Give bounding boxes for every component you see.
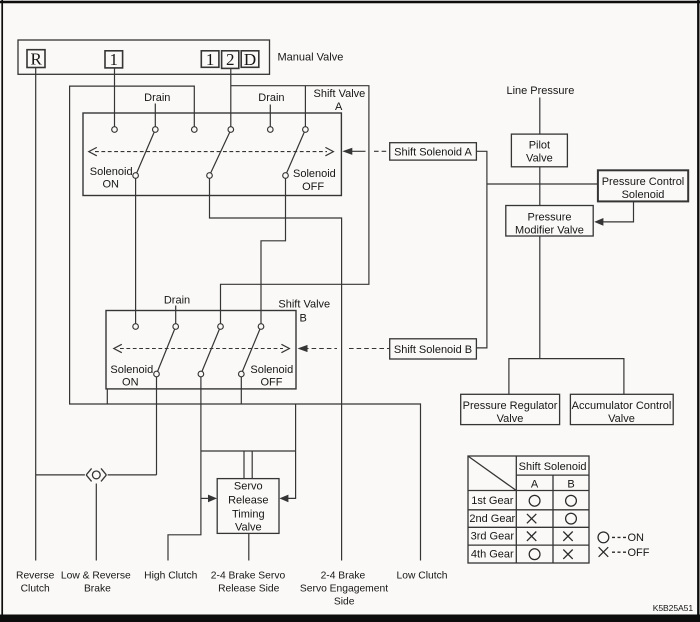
node shift valve B top ports [133, 324, 139, 330]
svg-text:Solenoid: Solenoid [293, 168, 336, 180]
svg-text:1st Gear: 1st Gear [471, 495, 514, 507]
legend on symbol [598, 532, 609, 543]
wire check valve to low and reverse brake [95, 484, 97, 561]
dashed arrow shift solenoid B to shift valve B [304, 348, 390, 350]
svg-text:Shift Valve: Shift Valve [278, 299, 330, 311]
mark 1st gear A on [529, 495, 540, 506]
svg-text:Solenoid: Solenoid [622, 189, 665, 201]
wire pressure modifier valve down [539, 236, 541, 359]
svg-text:Valve: Valve [497, 413, 524, 425]
svg-text:Accumulator Control: Accumulator Control [572, 400, 672, 412]
svg-text:Servo Engagement: Servo Engagement [300, 583, 388, 594]
wire drain run drop to servo release timing valve right side [285, 404, 296, 498]
wire drain net: left riser, shift valve A port 3, low clutch run [70, 86, 421, 560]
svg-text:Manual Valve: Manual Valve [278, 52, 344, 64]
svg-text:Solenoid: Solenoid [110, 364, 153, 376]
manual valve box [18, 40, 270, 74]
mark 2nd gear B on [566, 513, 577, 524]
mark 2nd gear A off [527, 514, 536, 523]
svg-text:Valve: Valve [608, 413, 635, 425]
svg-text:Valve: Valve [526, 152, 553, 164]
mark 3rd gear B off [563, 532, 572, 541]
switch diagonal B2 [201, 327, 221, 375]
wire split to regulator and accumulator valves [509, 359, 624, 395]
mark 4th gear B off [563, 550, 572, 559]
svg-text:2-4 Brake Servo: 2-4 Brake Servo [211, 570, 286, 581]
svg-text:Line Pressure: Line Pressure [506, 85, 574, 97]
svg-text:Solenoid: Solenoid [90, 166, 133, 178]
accumulator control valve box [570, 394, 673, 424]
svg-text:Release: Release [228, 494, 268, 506]
svg-text:Valve: Valve [235, 521, 262, 533]
wire shift valve A port c down to shift valve B port 4 [261, 176, 286, 327]
mark 1st gear B on [566, 495, 577, 506]
svg-text:B: B [300, 313, 307, 325]
pilot valve box [511, 134, 567, 167]
svg-text:Pilot: Pilot [529, 139, 550, 151]
arrow into servo release timing valve right side [279, 495, 288, 503]
svg-text:Side: Side [334, 596, 355, 607]
svg-text:2: 2 [226, 50, 235, 69]
wire pilot valve branch to solenoids and pressure control solenoid [487, 183, 598, 185]
port box 1 [105, 51, 123, 68]
svg-text:2nd Gear: 2nd Gear [469, 513, 515, 525]
pressure modifier valve box [506, 206, 593, 237]
arrow into pressure modifier valve [594, 218, 603, 226]
svg-text:Reverse: Reverse [16, 570, 55, 581]
svg-text:Timing: Timing [232, 508, 265, 520]
switch diagonal A2 [210, 130, 232, 176]
svg-text:High Clutch: High Clutch [144, 570, 197, 581]
svg-text:OFF: OFF [261, 377, 283, 389]
svg-text:3rd Gear: 3rd Gear [471, 531, 515, 543]
svg-text:OFF: OFF [628, 547, 650, 559]
svg-text:Drain: Drain [164, 295, 190, 307]
svg-text:Clutch: Clutch [21, 583, 50, 594]
mark 4th gear A on [529, 549, 540, 560]
shift valve B box [106, 311, 296, 389]
svg-text:OFF: OFF [302, 181, 324, 193]
svg-text:ON: ON [122, 377, 139, 389]
wire branch into servo release timing valve left side [201, 497, 212, 499]
svg-text:Modifier Valve: Modifier Valve [515, 225, 584, 237]
svg-text:Servo: Servo [234, 480, 263, 492]
wire shift valve B port f down to high clutch [168, 374, 201, 561]
node shift valve A bottom ports [133, 173, 139, 179]
wire shift valve A port a down to shift valve B port 1 [135, 176, 137, 327]
port box D [241, 51, 259, 68]
switch diagonal A3 [286, 130, 306, 176]
svg-text:Drain: Drain [258, 92, 284, 104]
svg-text:1: 1 [110, 50, 119, 69]
dashed spool arrow shift valve A [95, 151, 327, 153]
svg-text:Brake: Brake [84, 583, 111, 594]
svg-text:Shift Solenoid A: Shift Solenoid A [394, 147, 472, 159]
wire stub shift valve A port 6 [304, 86, 306, 130]
switch diagonal B3 [241, 327, 261, 375]
svg-text:Pressure Control: Pressure Control [602, 176, 685, 188]
switch diagonal B1 [157, 327, 176, 375]
shift valve A box [83, 113, 341, 196]
wire branch to servo release timing valve top [201, 450, 296, 452]
svg-text:Shift Valve: Shift Valve [314, 88, 366, 100]
svg-text:R: R [31, 49, 43, 68]
wire 1 port down to shift valve A port 1 [114, 68, 116, 130]
wire drain label stub A2 [269, 105, 271, 130]
shift solenoid A box [390, 143, 477, 160]
legend off symbol [599, 547, 609, 557]
port box 2 (D range) [222, 51, 239, 69]
shift solenoid B box [390, 339, 477, 359]
svg-text:Low Clutch: Low Clutch [397, 570, 448, 581]
dashed arrow shift solenoid A to shift valve A [347, 150, 366, 152]
svg-text:Pressure Regulator: Pressure Regulator [463, 400, 558, 412]
svg-text:Low & Reverse: Low & Reverse [61, 570, 131, 581]
wire pilot valve down to pressure modifier valve [539, 167, 541, 206]
svg-text:Drain: Drain [144, 92, 170, 104]
svg-text:Pressure: Pressure [527, 212, 571, 224]
check valve symbol [86, 468, 106, 481]
port box 1 (D range) [201, 51, 219, 68]
mark 3rd gear A off [527, 532, 536, 541]
node shift valve A top ports [112, 127, 118, 133]
wire shift valve B port g down to drain run [240, 374, 242, 404]
svg-text:Shift Solenoid B: Shift Solenoid B [394, 344, 472, 356]
pressure control solenoid box [598, 170, 688, 201]
gear table marks [527, 495, 626, 559]
port box R [27, 50, 45, 68]
node shift valve B bottom ports [154, 371, 160, 377]
wire 2 port down to shift valve A port 4 [230, 68, 232, 129]
wire pressure control solenoid to pressure modifier valve [601, 201, 634, 222]
svg-text:1: 1 [206, 50, 215, 69]
svg-text:A: A [335, 101, 343, 113]
svg-text:K5B25A51: K5B25A51 [653, 603, 694, 613]
wire shift valve A port b to 2-4 brake servo engagement side [210, 176, 342, 561]
switch diagonal A1 [136, 130, 156, 176]
wire pilot pressure to both solenoids [476, 151, 487, 348]
svg-text:Shift Solenoid: Shift Solenoid [519, 461, 587, 473]
wire R port down to reverse clutch [35, 68, 37, 561]
wire servo release timing valve to 2-4 brake servo release side [248, 533, 250, 560]
arrow into servo release timing valve left side [208, 495, 217, 503]
svg-text:ON: ON [102, 179, 119, 191]
svg-text:Solenoid: Solenoid [250, 364, 293, 376]
svg-text:2-4 Brake: 2-4 Brake [321, 570, 366, 581]
svg-text:ON: ON [628, 532, 645, 544]
servo release timing valve box [217, 479, 279, 534]
svg-text:A: A [531, 478, 539, 490]
pressure regulator valve box [461, 394, 560, 424]
svg-text:Release Side: Release Side [218, 583, 280, 594]
wire stub shift valve B lower-left corner to drain run [106, 389, 108, 404]
gear table frame [468, 456, 589, 563]
wire drain label stub A1 [154, 104, 156, 130]
wire servo top stub left [243, 451, 245, 479]
wire check valve line right segment [108, 474, 157, 476]
svg-text:4th Gear: 4th Gear [471, 549, 514, 561]
dashed spool arrow shift valve B [120, 348, 283, 350]
wire shift valve B port e down through check valve to R line [156, 374, 158, 475]
svg-text:B: B [567, 478, 574, 490]
svg-text:D: D [244, 50, 256, 69]
wire line pressure to pilot valve [539, 98, 541, 135]
wire drain label stub B [175, 306, 177, 327]
wire 2 net branch to shift valve A port 6 and shift valve B port 3 [221, 86, 369, 327]
wire servo top stub right [251, 451, 253, 479]
port circles (drawn over wires) [112, 127, 309, 377]
wire check valve line left segment [36, 474, 85, 476]
